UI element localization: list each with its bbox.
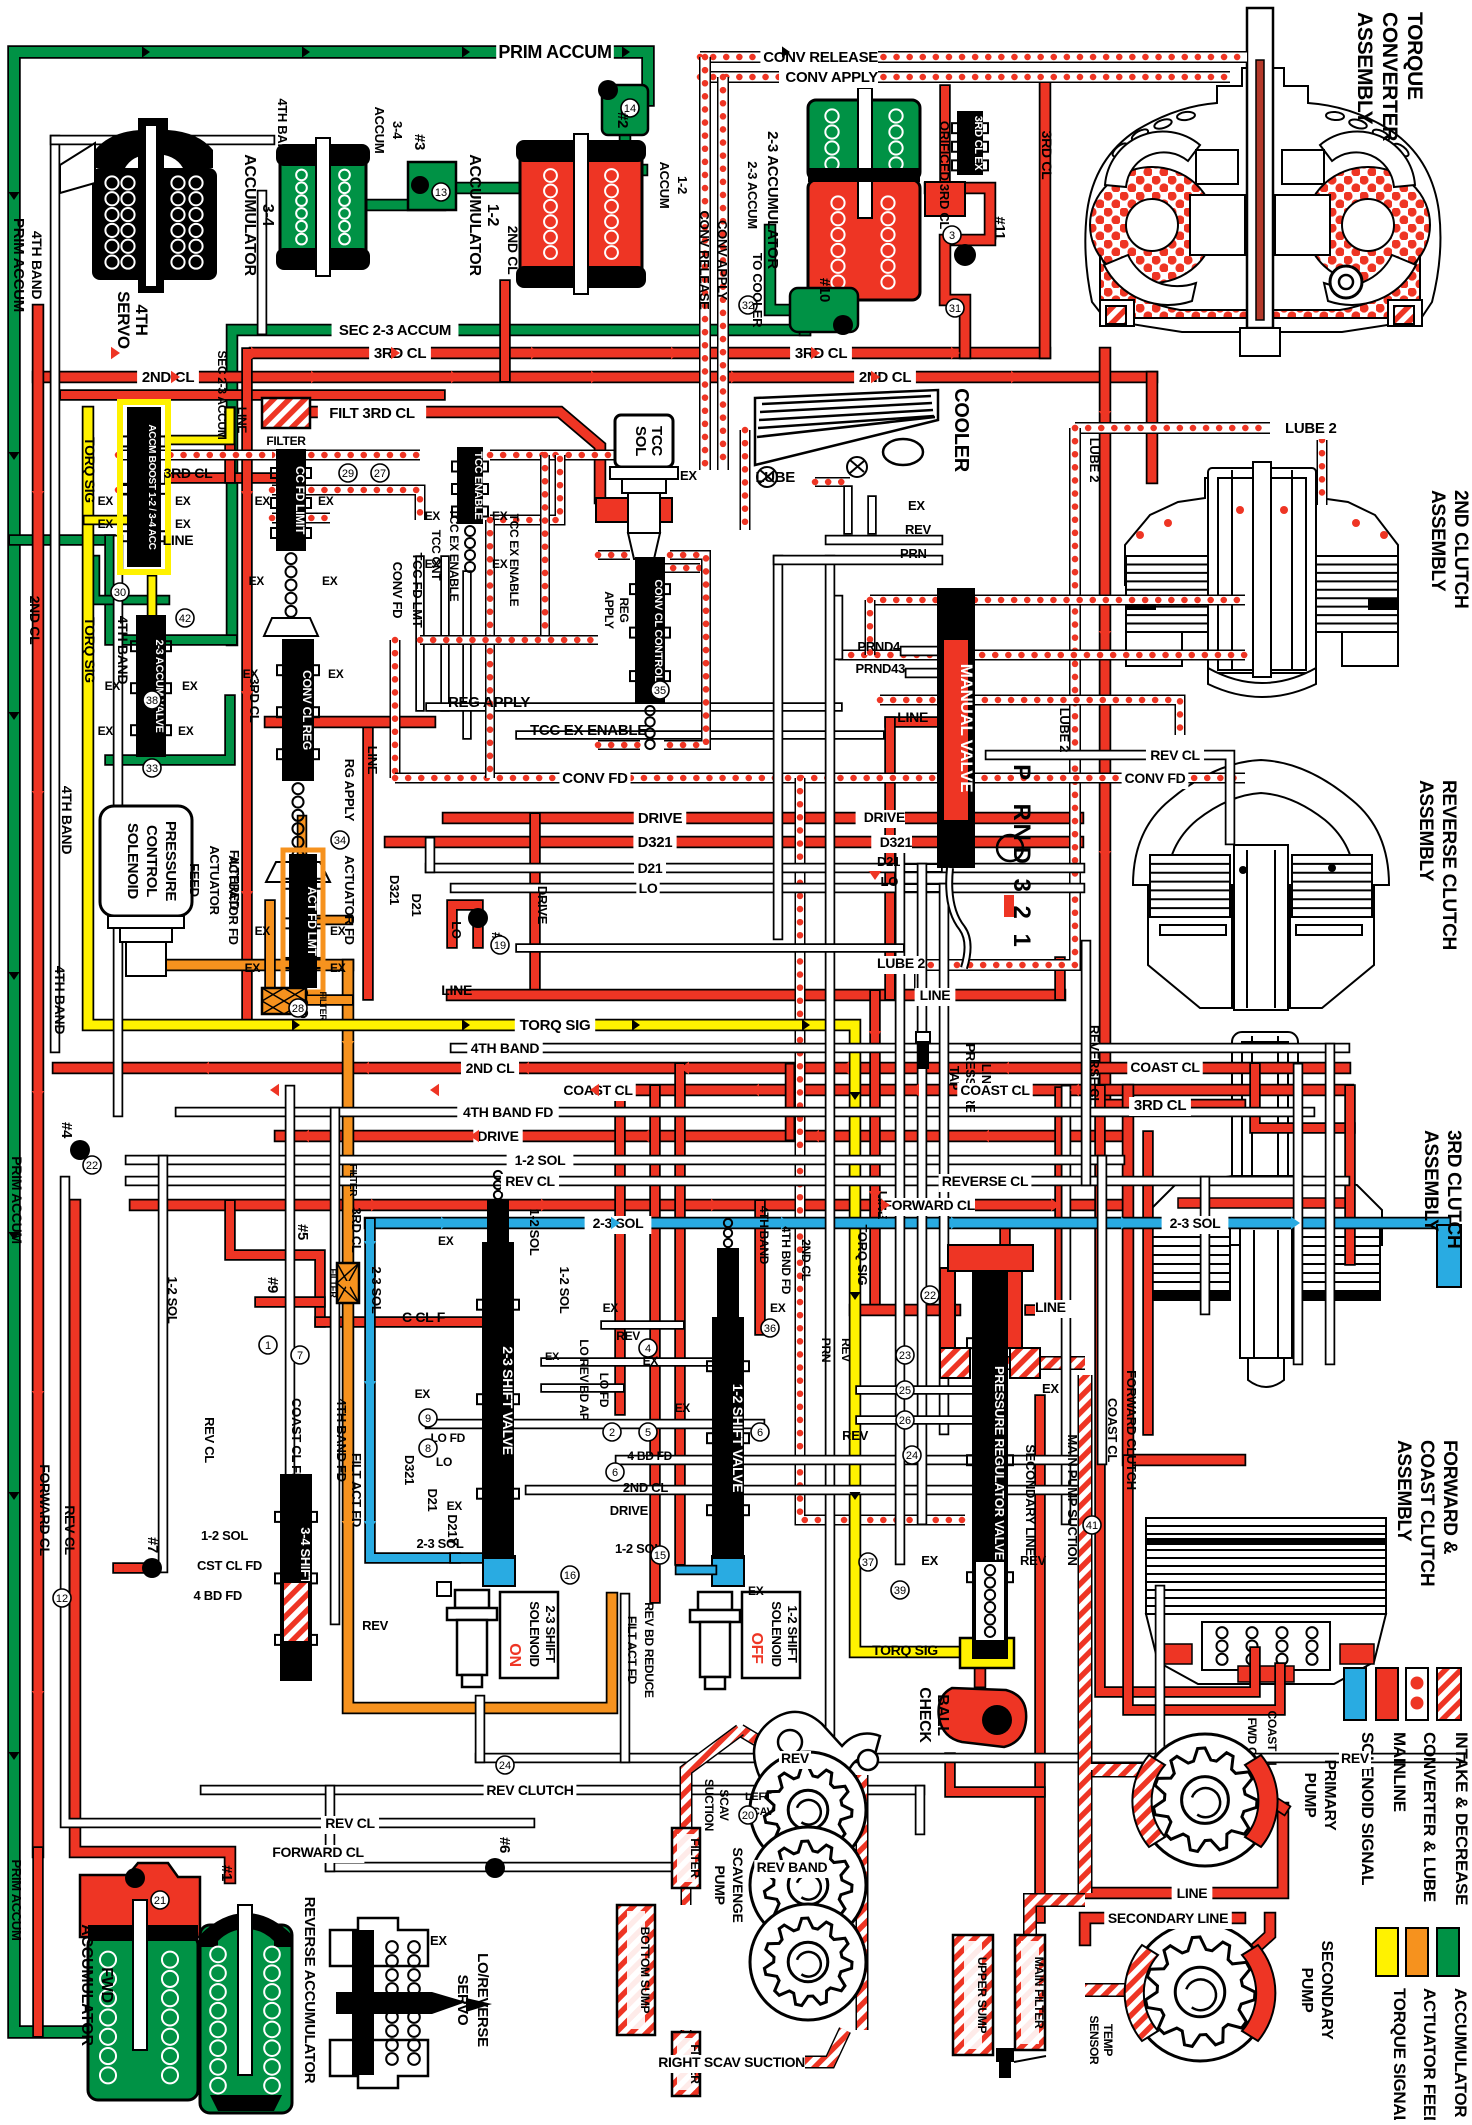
filter scav top [672,1828,700,1888]
wire 3RD CL mid riser [241,353,253,1022]
valve 2-3 accum [137,616,165,756]
svg-text:30: 30 [114,587,126,599]
wire LINE to manual valve [890,716,938,728]
svg-text:LO: LO [436,1455,452,1469]
svg-text:RIGHT SCAV SUCTION: RIGHT SCAV SUCTION [658,2054,805,2070]
wire [605,1320,680,1330]
svg-text:ACCUMULATOR: ACCUMULATOR [1451,1988,1470,2117]
svg-text:MAINLINE: MAINLINE [1390,1732,1409,1812]
svg-text:#7: #7 [144,1537,161,1553]
wire PRND4 [905,646,938,657]
wire COAST CL FD riser [285,1090,296,1600]
wire [833,600,844,655]
svg-text:ACTUATOR FD: ACTUATOR FD [226,855,241,944]
svg-text:24: 24 [906,1450,918,1462]
svg-text:TORQ SIG: TORQ SIG [82,437,98,503]
svg-text:FILTER: FILTER [318,991,328,1021]
wire frame c [598,740,640,750]
svg-text:FEED: FEED [187,863,202,896]
svg-text:EX: EX [908,498,925,513]
wire pr stub2 [860,1415,975,1425]
svg-text:LINE: LINE [441,982,472,998]
wire actuator feed from PCS [165,959,348,972]
svg-text:SEC 2-3 ACCUM: SEC 2-3 ACCUM [215,350,229,439]
svg-text:TORQUE: TORQUE [1403,12,1426,100]
wire REG APPLY dotted [838,650,1245,661]
pressure control solenoid [100,806,192,916]
wire #5 elbow [230,1205,320,1322]
svg-text:PRIM ACCUM: PRIM ACCUM [498,42,611,62]
wire dotted tcc cnt [870,595,1245,606]
svg-text:EX: EX [175,494,191,508]
svg-text:EX: EX [98,494,114,508]
wire act fd top [297,820,308,855]
svg-text:5: 5 [645,1427,651,1439]
wire LINE main [452,989,1060,1002]
wire [1054,962,1066,995]
reverse clutch assembly drawing [1133,760,1389,1010]
wire D321 riser [895,842,906,1560]
svg-text:CONV RELEASE: CONV RELEASE [697,211,712,311]
svg-text:EX: EX [438,1234,454,1248]
svg-text:3: 3 [949,230,955,242]
svg-text:12: 12 [56,1593,68,1605]
svg-text:16: 16 [564,1570,576,1582]
svg-text:ACTUATOR FEED: ACTUATOR FEED [1420,1988,1439,2120]
svg-text:TORQ SIG: TORQ SIG [855,1225,870,1286]
wire 1-2 sol blue stub [680,1565,712,1576]
wire to ball check [974,1598,987,1682]
svg-text:EX: EX [748,1584,764,1598]
svg-text:ACCUMULATOR: ACCUMULATOR [241,154,258,276]
svg-text:PRESSURE REGULATOR VALVE: PRESSURE REGULATOR VALVE [992,1366,1007,1561]
svg-text:4TH BAND: 4TH BAND [52,966,68,1035]
svg-text:EX: EX [255,494,271,508]
svg-text:D21: D21 [638,860,663,876]
wire REV CL long [130,1176,1345,1187]
wire line riser up [1054,1092,1066,1310]
ball [982,1705,1012,1735]
node #6 [485,1858,505,1878]
svg-text:#9: #9 [264,1277,281,1293]
wire lower wire 2 [530,1485,1080,1496]
wire FORWARD CL bottom [75,1205,230,1878]
wire [785,1068,796,1136]
svg-text:EX: EX [178,724,194,738]
wire conv fd riser 2 [485,520,495,778]
line pressure tap [916,1032,930,1068]
svg-text:SENSOR: SENSOR [1087,2016,1101,2066]
wire [490,455,560,520]
svg-text:EX: EX [322,574,338,588]
filter scav bottom [672,2032,700,2096]
wire tcc dotted 1 [272,450,420,461]
svg-text:MANUAL VALVE: MANUAL VALVE [957,664,976,793]
svg-text:15: 15 [654,1550,666,1562]
svg-text:22: 22 [924,1290,936,1302]
wire SEC 2-3 ACCUM [232,330,805,640]
wire tcc dotted 2 [272,490,420,520]
svg-text:PRIM ACCUM: PRIM ACCUM [9,1859,24,1940]
wire reg apply red [270,716,430,729]
svg-text:D321: D321 [387,875,402,905]
svg-text:#11: #11 [991,216,1008,239]
svg-text:MAIN FILTER: MAIN FILTER [1032,1957,1046,2029]
wire FILT ACT FD trunk [348,965,612,1708]
svg-text:CONV FD: CONV FD [1125,770,1186,786]
svg-text:FWD: FWD [98,1967,115,2003]
svg-text:PRESSURE: PRESSURE [162,821,179,901]
svg-text:EX: EX [328,667,344,681]
svg-text:1-2: 1-2 [675,176,690,194]
svg-text:LO/REVERSE: LO/REVERSE [474,1953,491,2047]
svg-text:N: N [1008,823,1035,840]
svg-text:ASSEMBLY: ASSEMBLY [1415,780,1436,882]
wire to 2-3 accum [799,300,812,330]
tcc solenoid [615,415,673,467]
svg-text:3RD CL: 3RD CL [795,345,848,362]
wire lower wire 1 [620,1455,1080,1466]
wire [681,1885,692,1905]
svg-text:RG APPLY: RG APPLY [342,759,357,822]
svg-text:3RD CLUTCH: 3RD CLUTCH [1443,1130,1464,1248]
wire pr LINE out [1030,1304,1060,1316]
4th servo [92,118,217,293]
svg-text:2-3 ACCUM VALVE: 2-3 ACCUM VALVE [153,639,165,732]
wire frame b [664,555,706,745]
wire 2ND CL to 2nd clutch [1146,377,1159,478]
svg-text:3RD CL: 3RD CL [1134,1097,1187,1114]
svg-text:SOLENOID: SOLENOID [769,1601,784,1667]
wire 3RD CL main [255,347,1045,360]
svg-text:TORQ SIG: TORQ SIG [82,617,98,683]
svg-text:13: 13 [435,187,447,199]
svg-text:EX: EX [675,1401,691,1415]
svg-text:REV: REV [1020,1553,1046,1568]
svg-text:1-2: 1-2 [484,204,501,227]
svg-text:APPLY: APPLY [602,591,616,629]
cooler [755,390,938,465]
svg-text:PRND4: PRND4 [857,639,901,654]
main filter [1015,1935,1045,2050]
wire #11 path [930,188,990,353]
svg-text:D321: D321 [638,834,673,851]
svg-text:1-2 SHIFT: 1-2 SHIFT [785,1605,800,1663]
svg-text:SOLENOID: SOLENOID [527,1601,542,1667]
wire right scav suction [745,2030,845,2062]
svg-text:PRIM ACCUM: PRIM ACCUM [10,218,27,312]
svg-text:OFF: OFF [748,1632,765,1664]
wire left scav suction [740,1730,790,1760]
wire [634,1905,647,2035]
wire CONV FD riser [390,640,401,778]
svg-text:42: 42 [179,613,191,625]
wire REV CL lower [65,1181,530,1823]
fwd accumulator [80,1863,200,1937]
wire [312,915,348,926]
svg-text:3-4: 3-4 [390,121,405,140]
svg-text:CONV RELEASE: CONV RELEASE [763,49,878,66]
wire [686,2030,745,2095]
svg-text:COAST CL: COAST CL [1105,1398,1120,1462]
2nd clutch assembly drawing [1125,462,1398,677]
wire coast cl riser [1100,1090,1255,1692]
svg-text:COAST CL: COAST CL [960,1082,1030,1098]
svg-text:REG APPLY: REG APPLY [448,694,530,711]
svg-text:PRIM ACCUM: PRIM ACCUM [9,1156,25,1243]
primary pump gear [1139,1734,1271,1866]
wire LUBE stub [815,477,850,487]
svg-text:#3: #3 [411,134,428,150]
svg-text:R: R [1008,803,1035,820]
svg-text:CONVERTER & LUBE: CONVERTER & LUBE [1420,1732,1439,1902]
svg-text:EX: EX [921,1553,938,1568]
wire conv release riser [699,57,711,470]
wire LUBE 2 top [1075,422,1270,434]
svg-text:28: 28 [292,1003,304,1015]
svg-text:4TH: 4TH [132,304,151,335]
svg-text:DRIVE: DRIVE [535,886,550,925]
valve conv cl control [636,558,664,703]
svg-text:TCC ENABLE: TCC ENABLE [472,452,484,520]
wire REV riser [825,560,836,1758]
svg-text:1-2 SHIFT VALVE: 1-2 SHIFT VALVE [730,1384,746,1493]
svg-text:PRESSURE: PRESSURE [963,1043,978,1113]
svg-text:4TH BAND: 4TH BAND [29,231,45,300]
svg-text:35: 35 [654,685,666,697]
wire [545,1383,620,1393]
svg-text:4TH BAND: 4TH BAND [757,1206,771,1265]
svg-text:CONV CL REG: CONV CL REG [300,670,314,750]
svg-text:PRND43: PRND43 [856,661,906,676]
svg-text:22: 22 [86,1160,98,1172]
wire LINE mid riser [362,722,374,995]
wire #9 stub [260,1296,320,1308]
upper sump [953,1935,993,2055]
wire primary out [1255,1790,1283,1808]
svg-text:PRIMARY: PRIMARY [1321,1759,1338,1831]
svg-text:REVERSE CLUTCH: REVERSE CLUTCH [1438,780,1459,950]
svg-text:20: 20 [742,1810,754,1822]
svg-text:EX: EX [770,1301,786,1315]
wire FWD CL trunk [135,1199,1120,1212]
svg-text:27: 27 [374,468,386,480]
wire frame a [598,550,630,560]
svg-text:TCC FD LMT: TCC FD LMT [410,553,425,628]
reverse accumulator [200,1925,292,2113]
svg-text:SEC 2-3 ACCUM: SEC 2-3 ACCUM [339,322,451,339]
svg-text:TCC EX ENABLE: TCC EX ENABLE [507,514,521,607]
wire tcc riser 2 [440,560,450,707]
wire [224,412,236,478]
wire to cooler [740,430,751,530]
svg-text:4TH BND FD: 4TH BND FD [779,1226,793,1295]
svg-text:ACTUATOR FD: ACTUATOR FD [342,855,357,944]
wire line riser [884,722,896,995]
wire [865,600,876,655]
svg-text:TO COOLER: TO COOLER [750,253,765,328]
svg-text:3RD CL: 3RD CL [164,465,214,481]
node #10 [790,288,858,332]
svg-text:LINE: LINE [1177,1885,1208,1901]
svg-text:CONV FD: CONV FD [562,770,628,787]
svg-text:LUBE: LUBE [755,469,795,486]
svg-text:EX: EX [318,494,334,508]
scavenge pump [754,1712,880,1782]
svg-text:TCC EX ENABLE: TCC EX ENABLE [530,722,647,739]
wire 2-3 accum drain [770,230,845,310]
wire LO REV BD AP [1097,1160,1108,1460]
svg-text:PRN: PRN [819,1338,833,1362]
svg-text:2ND CL: 2ND CL [799,1239,813,1281]
svg-text:FILT 3RD CL: FILT 3RD CL [329,405,415,422]
svg-text:COAST CL: COAST CL [1130,1059,1200,1075]
svg-text:2ND CL: 2ND CL [623,1480,669,1495]
svg-text:34: 34 [334,835,346,847]
2-3 accumulator [808,100,920,180]
svg-text:LINE: LINE [235,407,249,433]
wire secondary suction [1085,1983,1140,1997]
svg-text:2-3 SOL: 2-3 SOL [1170,1215,1222,1231]
valve pressure regulator [973,1268,1007,1658]
svg-text:LO: LO [881,874,899,889]
svg-text:FORWARD &: FORWARD & [1439,1440,1460,1555]
svg-text:ACCM BOOST 1-2 / 3-4 ACC: ACCM BOOST 1-2 / 3-4 ACC [146,424,157,549]
wire suction diag [1005,1356,1085,1370]
wire pr stub [860,1385,975,1395]
svg-text:REV: REV [1341,1750,1370,1766]
svg-text:CST CL FD: CST CL FD [197,1558,262,1573]
svg-text:TORQ SIG: TORQ SIG [872,1642,938,1658]
wire DRIVE riser [529,818,541,995]
svg-text:REG: REG [617,597,631,622]
wire 3RD CL right riser [1039,80,1052,353]
forward & coast clutch assembly drawing [1146,1518,1386,1614]
valve tcc enable [458,448,482,523]
svg-text:4 BD FD: 4 BD FD [627,1449,672,1463]
svg-text:EX: EX [243,667,259,681]
wire 3RD CL to 3rd clutch [1105,1099,1240,1112]
svg-text:CONV APPLY: CONV APPLY [715,220,730,300]
svg-text:EX: EX [105,679,121,693]
valve act fd lmt [290,855,316,987]
svg-text:REVERSE ACCUMULATOR: REVERSE ACCUMULATOR [301,1897,318,2084]
svg-text:CONV FD: CONV FD [390,562,405,618]
wire secondary line riser [1034,1400,1046,1918]
node #8 [468,908,488,928]
svg-text:REVERSE CL: REVERSE CL [942,1173,1029,1189]
wire [1155,1590,1166,1758]
wire [118,485,160,496]
svg-text:DRIVE: DRIVE [610,1503,649,1518]
wire scav loop [856,1775,869,2030]
svg-text:CONTROL: CONTROL [143,825,160,897]
wire D21Y riser [939,888,950,1430]
wire [778,555,938,566]
svg-text:4TH BAND: 4TH BAND [115,616,131,685]
svg-text:EX: EX [492,509,508,523]
svg-text:BOTTOM SUMP: BOTTOM SUMP [638,1927,652,2014]
svg-text:4TH BAND FD: 4TH BAND FD [463,1104,553,1120]
svg-text:COAST CL FD: COAST CL FD [289,1398,304,1482]
svg-text:SUCTION: SUCTION [702,1779,716,1831]
svg-text:LO: LO [639,880,658,896]
svg-text:2ND CL: 2ND CL [142,369,195,386]
valve 2-3 shift [483,1243,513,1558]
svg-text:1: 1 [265,1340,271,1352]
svg-text:8: 8 [425,1443,431,1455]
wire orificed 3rd cl [939,90,951,188]
wire #3 to 1-2 accum [455,182,520,195]
wire fwd cl riser [754,1205,766,1330]
svg-text:FORWARD CL: FORWARD CL [37,1464,53,1556]
svg-text:REV CL: REV CL [325,1815,375,1831]
wire CONV APPLY [700,71,1230,83]
svg-text:2-3 ACCUM: 2-3 ACCUM [745,161,760,229]
node #7 [142,1558,162,1578]
svg-text:REV: REV [616,1329,640,1343]
1-2 shift solenoid [690,1592,740,1689]
svg-text:REV BAND: REV BAND [757,1859,828,1875]
pressure regulator red jacket [940,1268,1022,1348]
svg-text:ACCUMULATOR: ACCUMULATOR [466,154,483,276]
wire [1078,1770,1093,1893]
svg-text:FILT ACT FD: FILT ACT FD [349,1453,364,1527]
svg-text:3RD CL: 3RD CL [1039,131,1055,181]
svg-text:FORWARD CLUTCH: FORWARD CLUTCH [1124,1370,1139,1490]
svg-text:TCC EX ENABLE: TCC EX ENABLE [447,509,461,602]
svg-text:REV: REV [362,1618,388,1633]
svg-text:ACCUM: ACCUM [372,107,387,154]
svg-text:UPPER SUMP: UPPER SUMP [975,1957,989,2034]
svg-text:D21: D21 [409,894,424,917]
wire [455,1552,483,1564]
svg-text:1-2 SOL: 1-2 SOL [557,1266,572,1313]
svg-text:D21: D21 [877,854,900,869]
svg-text:6: 6 [612,1467,618,1479]
svg-text:21: 21 [154,1895,166,1907]
svg-text:PUMP: PUMP [712,1865,728,1904]
svg-text:ACT FD LMT: ACT FD LMT [305,887,319,957]
svg-text:2ND CL: 2ND CL [505,226,521,276]
svg-text:CONVERTER: CONVERTER [1378,12,1401,141]
svg-text:EX: EX [492,557,508,571]
wire red riser C [674,1068,686,1560]
svg-text:2ND CL: 2ND CL [466,1060,516,1076]
wire to pressure regulator [855,1304,955,1317]
svg-text:REV BD REDUCE: REV BD REDUCE [642,1602,656,1698]
wire [867,500,877,530]
wire REV trunk [480,1753,1460,1764]
svg-text:6: 6 [757,1427,763,1439]
svg-text:SERVO: SERVO [454,1975,471,2026]
svg-text:SECONDARY: SECONDARY [1318,1941,1335,2041]
wire TCC EX ENABLE dotted [880,700,1180,735]
wire tcc mesh h [420,635,598,645]
wire [88,515,125,526]
svg-text:C CL F: C CL F [402,1309,446,1325]
svg-text:P: P [1008,764,1035,780]
wire to fwd clutch [1128,1090,1240,1460]
svg-text:41: 41 [1086,1520,1098,1532]
svg-text:2-3 SOL: 2-3 SOL [369,1266,384,1313]
wire 4TH BAND FD riser [330,1112,341,1620]
wire mid filler [520,943,900,953]
svg-text:FORWARD CL: FORWARD CL [883,1197,975,1213]
svg-text:4: 4 [645,1343,651,1355]
wire lube to 2nd clutch [1317,440,1328,505]
wire 4TH BAND lower [455,1043,1345,1054]
